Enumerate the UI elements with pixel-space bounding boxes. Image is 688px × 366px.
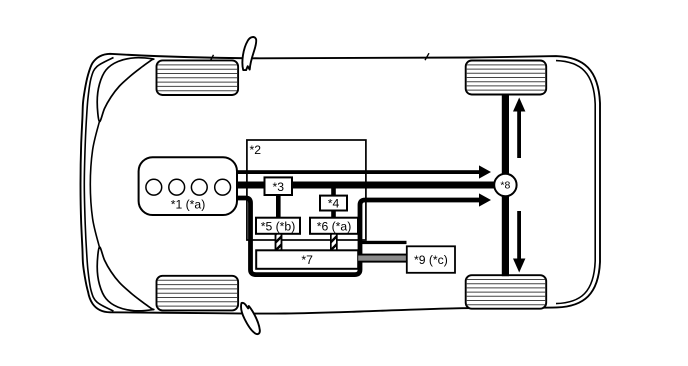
svg-text:*1 (*a): *1 (*a) [171, 198, 206, 212]
node *8 circle [494, 174, 516, 196]
rear bumper inner line [556, 61, 595, 304]
rear axle upper shaft [502, 94, 509, 174]
svg-text:*9 (*c): *9 (*c) [414, 253, 448, 267]
box *7 [256, 250, 358, 268]
front-left A-pillar sickle [97, 58, 154, 122]
hatch bar right [325, 223, 342, 264]
svg-text:*6 (*a): *6 (*a) [317, 219, 352, 233]
engine *1 [139, 157, 237, 215]
up arrowhead [513, 98, 525, 112]
hatch bar left [270, 223, 287, 264]
svg-text:*4: *4 [328, 197, 340, 211]
bottom door mirror [241, 303, 260, 334]
front bumper second line [90, 122, 99, 248]
down arrow shaft [517, 211, 521, 259]
connector *3 to *5 [276, 192, 281, 218]
box *3 [265, 177, 293, 195]
top edge nick 2 [425, 53, 429, 60]
svg-text:*7: *7 [301, 253, 313, 267]
box *5 [256, 218, 300, 234]
front-bottom wheel [157, 276, 239, 311]
power path around *7 [237, 198, 480, 275]
front-left wheel [157, 60, 239, 95]
front-bottom A-pillar sickle [97, 247, 154, 311]
top door mirror [242, 37, 256, 70]
top edge nick 1 [211, 55, 214, 61]
arrow line to *8 (top) [237, 170, 480, 174]
stub toward *9 [360, 241, 407, 244]
svg-text:*8: *8 [500, 180, 510, 192]
gray link bar to *9 [358, 254, 407, 263]
rear-bottom wheel [466, 275, 547, 309]
svg-text:*5 (*b): *5 (*b) [261, 219, 296, 233]
down arrowhead [513, 259, 525, 273]
rear axle lower shaft [502, 196, 509, 276]
front bumper inner line [84, 58, 113, 312]
arrowhead top [479, 165, 491, 178]
svg-text:*2: *2 [250, 143, 262, 157]
rear-top wheel [466, 61, 547, 95]
svg-text:*3: *3 [273, 180, 285, 194]
box *9 [407, 246, 455, 272]
box *2 [247, 140, 366, 240]
connector main line to *4 [331, 186, 336, 197]
box *4 [320, 196, 347, 211]
up arrow shaft [517, 110, 521, 158]
main driveshaft line [237, 182, 495, 189]
arrowhead bottom [479, 193, 491, 206]
box *6 [310, 218, 358, 234]
car body outer outline [81, 54, 601, 314]
connector *4 to *6 [331, 210, 336, 219]
